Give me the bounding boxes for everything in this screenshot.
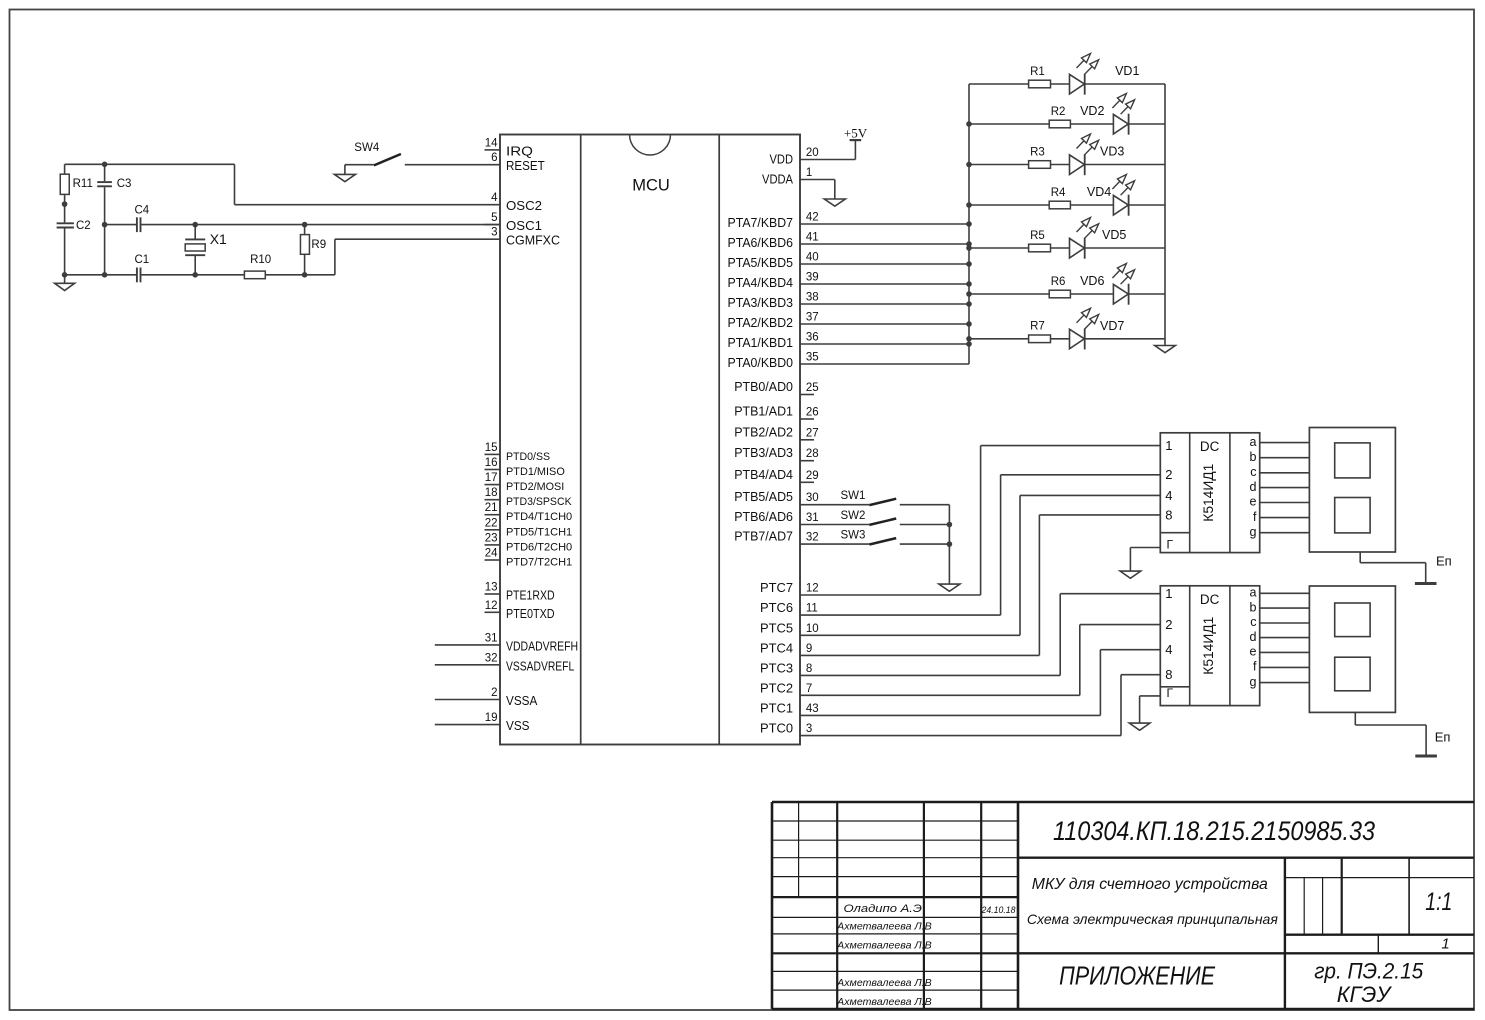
svg-text:SW3: SW3 bbox=[841, 530, 866, 542]
svg-text:17: 17 bbox=[485, 472, 498, 484]
svg-text:20: 20 bbox=[806, 147, 819, 159]
svg-text:SW1: SW1 bbox=[841, 490, 866, 502]
svg-text:32: 32 bbox=[806, 532, 819, 544]
svg-text:+5V: +5V bbox=[844, 126, 868, 141]
svg-text:4: 4 bbox=[1165, 642, 1172, 657]
svg-text:Ахметвалеева Л.В: Ахметвалеева Л.В bbox=[836, 939, 932, 951]
svg-text:14: 14 bbox=[485, 137, 498, 149]
svg-text:PTB7/AD7: PTB7/AD7 bbox=[734, 530, 793, 544]
svg-text:13: 13 bbox=[485, 582, 498, 594]
svg-text:3: 3 bbox=[806, 723, 812, 735]
svg-text:VD5: VD5 bbox=[1102, 228, 1126, 242]
svg-text:a: a bbox=[1250, 435, 1257, 449]
svg-text:КГЭУ: КГЭУ bbox=[1337, 982, 1392, 1007]
svg-text:R1: R1 bbox=[1030, 66, 1045, 78]
svg-text:PTC4: PTC4 bbox=[760, 641, 793, 655]
svg-text:VD2: VD2 bbox=[1080, 104, 1104, 118]
svg-text:OSC1: OSC1 bbox=[506, 218, 542, 233]
svg-text:DC: DC bbox=[1200, 592, 1220, 607]
svg-text:Оладипо А.Э: Оладипо А.Э bbox=[844, 903, 923, 915]
svg-text:PTE0TXD: PTE0TXD bbox=[506, 606, 555, 621]
svg-text:30: 30 bbox=[806, 492, 819, 504]
svg-text:c: c bbox=[1250, 615, 1256, 629]
svg-text:R3: R3 bbox=[1030, 146, 1045, 158]
svg-text:1: 1 bbox=[1165, 438, 1172, 453]
svg-text:1: 1 bbox=[806, 167, 812, 179]
svg-text:PTC1: PTC1 bbox=[760, 701, 793, 715]
svg-text:1: 1 bbox=[1165, 586, 1172, 601]
svg-text:PTD7/T2CH1: PTD7/T2CH1 bbox=[506, 557, 572, 569]
svg-text:ПРИЛОЖЕНИЕ: ПРИЛОЖЕНИЕ bbox=[1059, 961, 1216, 991]
svg-text:CGMFXC: CGMFXC bbox=[506, 233, 560, 248]
svg-text:MCU: MCU bbox=[632, 177, 670, 195]
svg-text:PTA4/KBD4: PTA4/KBD4 bbox=[728, 276, 794, 290]
svg-text:40: 40 bbox=[806, 252, 819, 264]
svg-text:5: 5 bbox=[491, 212, 497, 224]
svg-text:К514ИД1: К514ИД1 bbox=[1201, 464, 1216, 522]
svg-text:гр. ПЭ.2.15: гр. ПЭ.2.15 bbox=[1314, 959, 1424, 984]
svg-text:8: 8 bbox=[1165, 507, 1172, 522]
svg-text:SW4: SW4 bbox=[354, 142, 380, 154]
svg-text:C1: C1 bbox=[135, 254, 150, 266]
svg-text:24: 24 bbox=[485, 548, 498, 560]
svg-text:8: 8 bbox=[806, 663, 812, 675]
svg-text:PTB2/AD2: PTB2/AD2 bbox=[734, 425, 793, 439]
svg-text:PTD0/SS: PTD0/SS bbox=[506, 451, 550, 463]
svg-text:25: 25 bbox=[806, 382, 819, 394]
svg-text:VD7: VD7 bbox=[1100, 319, 1124, 333]
svg-text:19: 19 bbox=[485, 712, 498, 724]
svg-text:МКУ для счетного устройства: МКУ для счетного устройства bbox=[1032, 876, 1268, 893]
svg-text:31: 31 bbox=[485, 632, 498, 644]
svg-text:Г: Г bbox=[1167, 538, 1174, 552]
svg-text:VSSA: VSSA bbox=[506, 693, 538, 708]
svg-text:PTA1/KBD1: PTA1/KBD1 bbox=[728, 336, 794, 350]
svg-text:PTB4/AD4: PTB4/AD4 bbox=[734, 468, 793, 482]
svg-text:110304.КП.18.215.2150985.33: 110304.КП.18.215.2150985.33 bbox=[1053, 816, 1375, 846]
svg-text:11: 11 bbox=[806, 603, 818, 615]
svg-text:PTB1/AD1: PTB1/AD1 bbox=[734, 405, 793, 419]
svg-text:К514ИД1: К514ИД1 bbox=[1201, 617, 1216, 675]
svg-text:2: 2 bbox=[1165, 617, 1172, 632]
svg-text:PTC6: PTC6 bbox=[760, 601, 793, 615]
svg-text:15: 15 bbox=[485, 442, 498, 454]
svg-text:VSSADVREFL: VSSADVREFL bbox=[506, 659, 574, 673]
svg-text:PTC0: PTC0 bbox=[760, 722, 793, 736]
svg-text:OSC2: OSC2 bbox=[506, 198, 542, 213]
svg-text:9: 9 bbox=[806, 643, 812, 655]
svg-text:27: 27 bbox=[806, 427, 819, 439]
svg-text:g: g bbox=[1250, 675, 1257, 689]
svg-text:2: 2 bbox=[491, 687, 497, 699]
svg-text:C3: C3 bbox=[117, 178, 132, 190]
svg-text:PTD5/T1CH1: PTD5/T1CH1 bbox=[506, 526, 572, 538]
svg-text:R9: R9 bbox=[311, 239, 326, 251]
svg-text:37: 37 bbox=[806, 312, 819, 324]
svg-text:32: 32 bbox=[485, 652, 498, 664]
svg-text:PTD1/MISO: PTD1/MISO bbox=[506, 466, 565, 478]
svg-text:e: e bbox=[1250, 495, 1257, 509]
svg-text:2: 2 bbox=[1165, 467, 1172, 482]
svg-text:C4: C4 bbox=[135, 205, 150, 217]
svg-text:Ахметвалеева Л.В: Ахметвалеева Л.В bbox=[836, 977, 932, 989]
svg-text:PTC5: PTC5 bbox=[760, 621, 793, 635]
svg-text:41: 41 bbox=[806, 232, 819, 244]
svg-text:a: a bbox=[1250, 586, 1257, 600]
svg-text:R6: R6 bbox=[1051, 276, 1066, 288]
svg-text:X1: X1 bbox=[210, 231, 227, 247]
svg-text:16: 16 bbox=[485, 457, 498, 469]
svg-text:31: 31 bbox=[806, 512, 819, 524]
svg-text:VD3: VD3 bbox=[1100, 145, 1124, 159]
svg-text:PTB0/AD0: PTB0/AD0 bbox=[734, 380, 793, 394]
svg-text:PTD3/SPSCK: PTD3/SPSCK bbox=[506, 496, 572, 508]
svg-text:38: 38 bbox=[806, 292, 819, 304]
svg-text:d: d bbox=[1250, 480, 1257, 494]
svg-text:8: 8 bbox=[1165, 667, 1172, 682]
svg-text:R7: R7 bbox=[1030, 321, 1045, 333]
svg-text:VD6: VD6 bbox=[1080, 274, 1104, 288]
svg-text:PTC3: PTC3 bbox=[760, 661, 793, 675]
svg-text:g: g bbox=[1250, 525, 1257, 539]
svg-text:10: 10 bbox=[806, 623, 819, 635]
svg-text:PTA2/KBD2: PTA2/KBD2 bbox=[728, 316, 794, 330]
svg-text:29: 29 bbox=[806, 470, 819, 482]
svg-text:PTA6/KBD6: PTA6/KBD6 bbox=[728, 236, 794, 250]
svg-text:PTB5/AD5: PTB5/AD5 bbox=[734, 490, 793, 504]
svg-text:28: 28 bbox=[806, 448, 819, 460]
svg-text:22: 22 bbox=[485, 517, 498, 529]
svg-text:1:1: 1:1 bbox=[1425, 888, 1452, 916]
svg-text:IRQ: IRQ bbox=[506, 143, 533, 158]
svg-text:Еп: Еп bbox=[1436, 553, 1452, 568]
svg-text:f: f bbox=[1253, 660, 1257, 674]
svg-text:VDDA: VDDA bbox=[762, 173, 794, 187]
svg-text:3: 3 bbox=[491, 227, 497, 239]
svg-text:VD4: VD4 bbox=[1087, 185, 1111, 199]
svg-text:PTC7: PTC7 bbox=[760, 581, 793, 595]
svg-text:PTE1RXD: PTE1RXD bbox=[506, 588, 555, 603]
svg-text:PTD6/T2CH0: PTD6/T2CH0 bbox=[506, 541, 572, 553]
svg-text:VD1: VD1 bbox=[1115, 64, 1139, 78]
svg-text:f: f bbox=[1253, 510, 1257, 524]
svg-text:DC: DC bbox=[1200, 439, 1220, 454]
svg-text:PTD2/MOSI: PTD2/MOSI bbox=[506, 481, 564, 493]
svg-text:b: b bbox=[1250, 600, 1257, 614]
svg-text:C2: C2 bbox=[76, 220, 91, 232]
svg-text:43: 43 bbox=[806, 703, 819, 715]
svg-text:12: 12 bbox=[485, 600, 498, 612]
svg-text:RESET: RESET bbox=[506, 158, 545, 173]
svg-text:Еп: Еп bbox=[1435, 730, 1451, 745]
svg-text:PTC2: PTC2 bbox=[760, 681, 793, 695]
svg-text:42: 42 bbox=[806, 212, 819, 224]
svg-text:PTB6/AD6: PTB6/AD6 bbox=[734, 510, 793, 524]
svg-text:R2: R2 bbox=[1051, 106, 1066, 118]
svg-text:VDDADVREFH: VDDADVREFH bbox=[506, 639, 578, 653]
svg-text:PTA0/KBD0: PTA0/KBD0 bbox=[728, 356, 794, 370]
svg-text:SW2: SW2 bbox=[841, 510, 866, 522]
svg-text:R5: R5 bbox=[1030, 230, 1045, 242]
svg-text:1: 1 bbox=[1441, 935, 1449, 952]
svg-text:4: 4 bbox=[491, 192, 498, 204]
svg-text:b: b bbox=[1250, 450, 1257, 464]
svg-text:R11: R11 bbox=[73, 178, 93, 190]
svg-text:36: 36 bbox=[806, 332, 819, 344]
svg-text:PTA5/KBD5: PTA5/KBD5 bbox=[728, 256, 794, 270]
svg-text:PTD4/T1CH0: PTD4/T1CH0 bbox=[506, 511, 572, 523]
svg-text:26: 26 bbox=[806, 407, 819, 419]
svg-text:R10: R10 bbox=[250, 254, 271, 266]
svg-text:VDD: VDD bbox=[770, 153, 794, 167]
svg-text:e: e bbox=[1250, 645, 1257, 659]
svg-text:R4: R4 bbox=[1051, 187, 1066, 199]
svg-text:Ахметвалеева Л.В: Ахметвалеева Л.В bbox=[836, 996, 932, 1008]
svg-text:23: 23 bbox=[485, 532, 498, 544]
svg-text:Г: Г bbox=[1167, 686, 1174, 700]
svg-text:35: 35 bbox=[806, 352, 819, 364]
svg-text:12: 12 bbox=[806, 583, 819, 595]
svg-text:7: 7 bbox=[806, 683, 812, 695]
svg-text:4: 4 bbox=[1165, 488, 1172, 503]
svg-text:24.10.18: 24.10.18 bbox=[981, 905, 1016, 915]
svg-text:18: 18 bbox=[485, 487, 498, 499]
svg-text:PTA7/KBD7: PTA7/KBD7 bbox=[728, 216, 794, 230]
svg-text:d: d bbox=[1250, 630, 1257, 644]
svg-text:21: 21 bbox=[485, 502, 498, 514]
svg-text:VSS: VSS bbox=[506, 718, 530, 733]
svg-text:PTA3/KBD3: PTA3/KBD3 bbox=[728, 296, 794, 310]
svg-text:Ахметвалеева Л.В: Ахметвалеева Л.В bbox=[836, 921, 932, 933]
svg-text:PTB3/AD3: PTB3/AD3 bbox=[734, 446, 793, 460]
svg-text:Схема электрическая принципаль: Схема электрическая принципальная bbox=[1027, 911, 1279, 927]
svg-text:39: 39 bbox=[806, 272, 819, 284]
svg-text:c: c bbox=[1250, 465, 1256, 479]
svg-text:6: 6 bbox=[491, 152, 497, 164]
